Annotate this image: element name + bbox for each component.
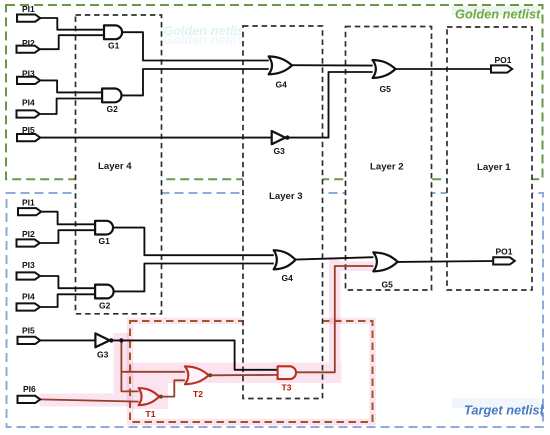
red group dashed box [130, 321, 373, 422]
output pin PO1 [491, 65, 512, 72]
wire PI1 to G1 (target) [41, 212, 95, 225]
junction dot at T2 output [208, 373, 212, 377]
AND gate T3 (red) [278, 366, 296, 379]
OR gate T1 (red) [139, 388, 160, 405]
svg-text:Golden netlist: Golden netlist [163, 32, 249, 47]
svg-text:G5: G5 [382, 280, 394, 290]
red wire T3 to G5 lower input [296, 266, 373, 372]
OR gate G4 (target) [274, 250, 296, 269]
svg-text:Layer 3: Layer 3 [269, 191, 303, 202]
svg-text:G1: G1 [108, 41, 120, 51]
input pin PI4 [17, 110, 40, 117]
input pin PI2 (target) [17, 239, 40, 246]
buffer G3 [272, 131, 286, 144]
layer 1 dashed box [447, 27, 532, 290]
output pin PO1 (target) [493, 257, 515, 264]
wire G5 to PO1 [396, 68, 492, 70]
svg-text:PI4: PI4 [22, 292, 35, 302]
target netlist title halo [452, 398, 540, 408]
svg-text:T1: T1 [146, 409, 156, 419]
svg-text:PI6: PI6 [23, 384, 36, 394]
buffer G3 (target) [95, 333, 109, 347]
svg-text:G4: G4 [282, 273, 294, 283]
input pin PI2 [17, 46, 40, 53]
wire PI3 to G2 [40, 80, 102, 92]
AND gate G2 [102, 89, 121, 103]
wire G4 to G5 [292, 64, 373, 66]
svg-text:PO1: PO1 [495, 55, 512, 65]
svg-text:PI4: PI4 [22, 98, 35, 108]
OR gate G4 [269, 56, 292, 74]
layer 2 dashed box [346, 27, 432, 291]
input pin PI3 (target) [17, 272, 40, 279]
wire PI5 to G3 (target) [40, 339, 95, 341]
wire PI2 to G1 (target) [40, 230, 96, 243]
svg-text:G3: G3 [97, 350, 109, 360]
svg-text:Layer 4: Layer 4 [98, 161, 132, 172]
pink highlight glow around red group [40, 259, 374, 409]
svg-text:PI2: PI2 [22, 38, 35, 48]
junction dot red tap on PI5 net [119, 338, 123, 342]
OR gate G5 [373, 60, 396, 78]
wire G1 to G4 (target) [113, 228, 274, 256]
svg-text:PI5: PI5 [22, 326, 35, 336]
AND gate G1 (target) [95, 221, 113, 235]
layer 3 dashed box [243, 26, 323, 399]
svg-text:Golden netlist: Golden netlist [455, 7, 541, 22]
svg-text:PI1: PI1 [22, 198, 35, 208]
input pin PI3 [17, 77, 40, 84]
svg-text:T3: T3 [282, 383, 292, 393]
svg-text:Layer 1: Layer 1 [477, 162, 511, 173]
cursor bar after title [541, 404, 542, 417]
junction dot at T1 output [159, 395, 163, 399]
svg-text:PI1: PI1 [22, 4, 35, 14]
svg-text:Target netlist: Target netlist [464, 403, 545, 418]
junction dot at G3 output (target) [109, 338, 113, 342]
wire G3 to G5 [285, 72, 372, 138]
input pin PI4 (target) [17, 303, 40, 310]
layer 4 dashed box [76, 15, 162, 314]
red wire G3 node down to T1/T2 [121, 340, 138, 391]
wire PI2 to G1 [40, 35, 105, 49]
AND gate G2 (target) [95, 285, 114, 299]
input pin PI5 (target) [18, 337, 41, 344]
wire PI4 to G2 (target) [40, 294, 95, 307]
red wire T2 to T3 lower input [210, 374, 278, 376]
svg-text:G2: G2 [99, 301, 111, 311]
svg-text:T2: T2 [193, 389, 203, 399]
OR gate G5 (target) [373, 252, 397, 271]
svg-text:PI5: PI5 [22, 125, 35, 135]
wire PI4 to G2 [40, 99, 102, 115]
svg-text:PI3: PI3 [22, 69, 35, 79]
svg-text:PO1: PO1 [496, 247, 513, 257]
red wire T1 to T2 [160, 380, 185, 396]
red wire branch to T2 upper input [121, 371, 184, 373]
AND gate G1 [104, 25, 122, 39]
svg-text:PI3: PI3 [22, 260, 35, 270]
svg-text:G3: G3 [274, 146, 286, 156]
svg-text:G2: G2 [107, 104, 119, 114]
wire G2 to G4 [122, 69, 269, 95]
wire G4 to G5 (target) [296, 257, 374, 259]
golden netlist title halo [452, 6, 540, 15]
golden netlist dashed border [6, 5, 543, 179]
wire PI3 to G2 (target) [40, 276, 95, 288]
wire G2 to G4 (target) [114, 264, 274, 292]
svg-text:G1: G1 [99, 236, 111, 246]
input pin PI1 [17, 15, 40, 22]
red wire PI6 to T1 lower input [40, 399, 139, 401]
svg-text:G5: G5 [380, 84, 392, 94]
input pin PI6 (target) [18, 396, 41, 403]
red group glow halo [130, 321, 373, 422]
target netlist dashed border [7, 193, 544, 427]
svg-text:G4: G4 [276, 80, 288, 90]
wire G3 to T3 upper input [110, 340, 278, 369]
wire PI5 to G3 [40, 137, 272, 139]
input pin PI1 (target) [18, 208, 41, 215]
svg-text:Layer 2: Layer 2 [370, 162, 404, 173]
wire PI1 to G1 [40, 18, 104, 30]
wire G1 to G4 [122, 32, 269, 60]
OR gate T2 (red) [185, 366, 209, 384]
wire G5 to PO1 (target) [398, 260, 493, 263]
input pin PI5 [17, 134, 40, 141]
svg-text:PI2: PI2 [22, 229, 35, 239]
junction dot at G3 output [285, 135, 289, 139]
